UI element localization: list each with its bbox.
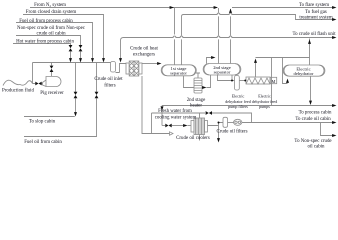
svg-text:To flare system: To flare system (299, 3, 329, 8)
svg-text:To process cabin: To process cabin (299, 110, 332, 115)
svg-text:From N₂ system: From N₂ system (34, 3, 66, 8)
svg-text:dehydrator feed: dehydrator feed (252, 99, 278, 104)
svg-text:pump filters: pump filters (228, 104, 248, 109)
svg-text:Non-spec crude oil from Non-sp: Non-spec crude oil from Non-spec (17, 26, 86, 31)
svg-text:Electric: Electric (258, 94, 271, 99)
svg-text:heater: heater (190, 103, 202, 108)
svg-text:Crude oil inlet: Crude oil inlet (94, 77, 123, 82)
svg-text:Crude oil filters: Crude oil filters (217, 130, 248, 135)
svg-text:2nd stage: 2nd stage (187, 98, 206, 103)
svg-text:dehydrator feed: dehydrator feed (225, 99, 251, 104)
svg-text:Fuel oil from cabin: Fuel oil from cabin (24, 140, 62, 145)
svg-text:treatment system: treatment system (299, 15, 332, 20)
svg-text:To Non-spec crude: To Non-spec crude (294, 139, 331, 144)
svg-text:Pig receiver: Pig receiver (40, 91, 64, 96)
svg-text:Fresh water from: Fresh water from (158, 109, 192, 114)
svg-text:Production fluid: Production fluid (2, 89, 34, 94)
svg-text:M: M (272, 79, 276, 84)
svg-text:separator: separator (214, 70, 231, 75)
svg-text:oil cabin: oil cabin (308, 144, 326, 149)
svg-text:To fuel gas: To fuel gas (305, 10, 327, 15)
svg-text:separator: separator (170, 71, 187, 76)
svg-text:crude oil cabin: crude oil cabin (36, 31, 66, 36)
svg-text:To slop cabin: To slop cabin (29, 119, 56, 124)
svg-text:cooling water system: cooling water system (155, 116, 197, 121)
svg-text:exchangers: exchangers (133, 52, 155, 57)
svg-text:Fuel oil from process cabin: Fuel oil from process cabin (19, 19, 73, 24)
svg-text:filters: filters (104, 83, 116, 88)
svg-text:From closed drain system: From closed drain system (26, 10, 77, 15)
svg-text:Hot water from process cabin: Hot water from process cabin (16, 39, 74, 44)
svg-text:dehydrator: dehydrator (294, 71, 314, 76)
svg-text:To crude oil cabin: To crude oil cabin (295, 117, 331, 122)
svg-text:Crude oil coolers: Crude oil coolers (176, 136, 210, 141)
svg-text:Electric: Electric (232, 94, 245, 99)
svg-text:pumps: pumps (259, 104, 270, 109)
svg-text:To crude oil flash unit: To crude oil flash unit (292, 32, 336, 37)
svg-text:Crude oil heat: Crude oil heat (130, 46, 158, 51)
